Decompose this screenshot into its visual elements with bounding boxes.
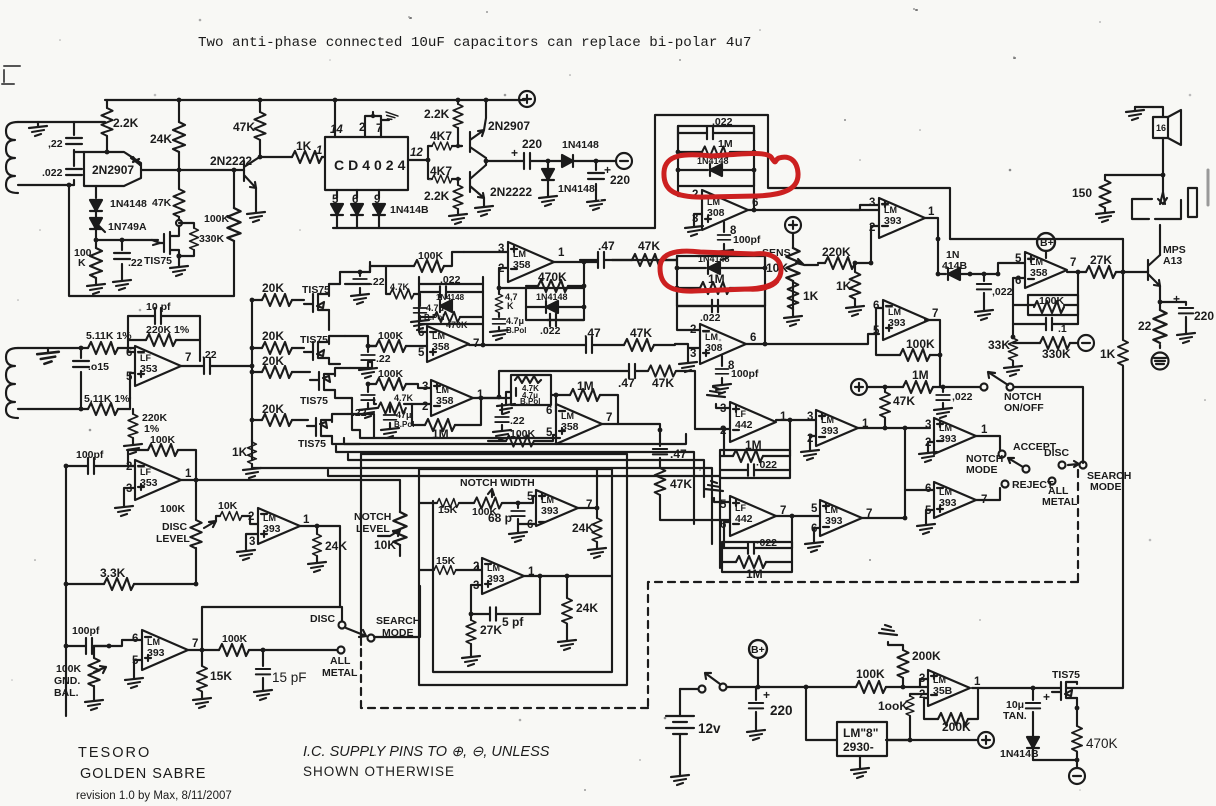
svg-text:DISC: DISC — [310, 613, 336, 625]
svg-text:2930-: 2930- — [843, 740, 874, 754]
resistor 15K — [193, 650, 232, 708]
resistor 5.11K 1% bottom — [83, 393, 130, 415]
svg-text:1K: 1K — [836, 279, 852, 293]
diode 1N4148 — [90, 198, 147, 211]
pin 14 — [330, 98, 343, 137]
feedback 470K — [526, 270, 586, 292]
op-amp U23 LM358 — [919, 670, 981, 706]
capacitor .22 — [113, 238, 143, 290]
FET T1 TIS75 — [302, 284, 340, 330]
potentiometer 100K notch width — [472, 489, 530, 518]
wire out — [181, 365, 204, 367]
svg-text:LEVEL: LEVEL — [356, 523, 390, 535]
svg-text:200K: 200K — [912, 649, 941, 663]
wire out to node column — [862, 517, 905, 519]
capacitor .022 — [678, 116, 754, 140]
svg-text:1N4148: 1N4148 — [558, 183, 595, 195]
resistor 20K row1 — [250, 281, 304, 306]
svg-text:̅L̅F: ̅L̅F — [137, 467, 151, 477]
svg-text:47K: 47K — [670, 477, 692, 491]
wire pin5 — [425, 345, 427, 347]
svg-text:1N4148: 1N4148 — [110, 198, 147, 210]
svg-text:2N2222: 2N2222 — [210, 154, 252, 168]
wire out to node — [858, 427, 930, 429]
svg-text:METAL: METAL — [1042, 496, 1078, 508]
switch notch on/off — [943, 372, 1083, 463]
resistor 1M — [675, 272, 765, 294]
svg-text:NOTCH: NOTCH — [354, 511, 391, 523]
out + 24K — [572, 469, 606, 558]
capacitor .022 — [42, 160, 82, 185]
svg-text:3.3K: 3.3K — [100, 566, 126, 580]
svg-text:15K: 15K — [438, 504, 458, 516]
resistor 4K7 — [428, 160, 460, 183]
resistor 2.2K — [424, 98, 463, 149]
comparator U14 LM393 accept — [925, 418, 988, 454]
resistor 1M — [903, 368, 943, 393]
svg-text:.22: .22 — [128, 257, 143, 269]
wire group2 left down — [677, 288, 700, 330]
svg-text:1: 1 — [981, 424, 988, 436]
wire out to disc switch — [317, 526, 340, 607]
resistor 100K feedback — [876, 308, 942, 361]
ground pin2 — [801, 436, 819, 460]
resistor 5.11K 1% top — [83, 330, 135, 354]
resistor 47K row B — [624, 326, 675, 351]
cap .022 + gnd — [934, 385, 973, 418]
wire out to box edge — [567, 575, 612, 577]
outer spiral wire box — [361, 454, 627, 685]
svg-text:1: 1 — [928, 206, 935, 218]
ground — [29, 122, 47, 136]
svg-text:100K: 100K — [222, 633, 248, 645]
resistor 100K boxed — [1013, 295, 1078, 315]
FET T3 TIS75 — [300, 368, 352, 407]
svg-text:,22: ,22 — [48, 138, 63, 150]
svg-text:10 pf: 10 pf — [146, 301, 171, 313]
pin 1 in + resistor 1K — [260, 139, 325, 163]
svg-text:100K: 100K — [906, 337, 935, 351]
wire search right — [374, 586, 420, 637]
resistor 100K pin2 — [878, 694, 928, 742]
svg-text:TAN.: TAN. — [1003, 710, 1027, 722]
wire to plus terminal — [910, 732, 994, 748]
svg-text:TIS75: TIS75 — [298, 438, 326, 450]
svg-text:.47: .47 — [670, 447, 687, 461]
resistor 220K 1% vertical — [124, 398, 168, 454]
resistor 15K — [419, 499, 474, 516]
svg-text:K: K — [507, 301, 514, 311]
svg-text:4.7K: 4.7K — [390, 282, 410, 292]
comparator U19 LM393 — [473, 558, 535, 594]
wire row B out — [483, 344, 586, 346]
resistor 47K row A — [612, 239, 677, 266]
svg-text:5 pf: 5 pf — [502, 615, 524, 629]
terminal plus — [851, 379, 903, 395]
wire speaker top — [1135, 107, 1163, 117]
sample bus nested wires — [340, 272, 374, 438]
wire speaker down — [1105, 138, 1163, 175]
svg-text:1M: 1M — [432, 427, 449, 441]
svg-text:220: 220 — [1194, 309, 1214, 323]
svg-text:5: 5 — [720, 499, 727, 511]
svg-text:3: 3 — [925, 419, 931, 431]
svg-text:100K: 100K — [510, 428, 536, 440]
comparator U18 LM393 — [527, 490, 592, 531]
pot 100K gnd bal — [54, 644, 111, 710]
svg-text:16: 16 — [1156, 123, 1166, 133]
svg-text:ALL: ALL — [330, 655, 351, 667]
svg-text:1K: 1K — [803, 289, 819, 303]
svg-text:A13: A13 — [1163, 255, 1182, 267]
svg-text:,022: ,022 — [992, 286, 1013, 298]
capacitor 220 — [747, 687, 793, 740]
svg-text:1: 1 — [974, 676, 981, 688]
svg-text:6: 6 — [546, 405, 552, 417]
svg-text:TIS75: TIS75 — [300, 395, 328, 407]
svg-text:+: + — [604, 163, 611, 177]
svg-text:47K: 47K — [233, 120, 255, 134]
FET T5 TIS75 — [1052, 669, 1080, 708]
op-amp U7 LF353 — [126, 346, 191, 386]
svg-text:27K: 27K — [1090, 253, 1112, 267]
svg-text:BAL.: BAL. — [54, 687, 79, 699]
svg-text:1N4148: 1N4148 — [436, 293, 465, 302]
svg-text:MODE: MODE — [1090, 481, 1122, 493]
svg-text:2.2K: 2.2K — [424, 107, 450, 121]
resistor 20K row4 — [250, 402, 308, 426]
battery 12v — [666, 689, 721, 785]
wire pin2 — [678, 186, 702, 196]
svg-text:1: 1 — [558, 247, 565, 259]
svg-text:SHOWN OTHERWISE: SHOWN OTHERWISE — [303, 764, 455, 779]
red loop 1 — [664, 153, 798, 197]
svg-text:24K: 24K — [572, 521, 594, 535]
resistor 1K lower — [1080, 340, 1128, 688]
capacitor .22 — [202, 349, 252, 374]
wire row to 100K — [345, 284, 376, 346]
dashed wire — [361, 470, 1078, 708]
svg-text:+: + — [763, 688, 770, 702]
wire collector down — [95, 186, 97, 198]
svg-text:6: 6 — [750, 332, 756, 344]
svg-text:68 p: 68 p — [488, 511, 512, 525]
svg-text:220: 220 — [610, 173, 630, 187]
box 4.7K/4.7u — [497, 375, 552, 414]
resistor 200K up to gnd — [879, 625, 941, 687]
cap .47 row A — [580, 239, 615, 268]
terminal minus — [596, 153, 632, 169]
resistor 1M to pin6 — [552, 379, 618, 424]
svg-text:20K: 20K — [262, 281, 284, 295]
resistor 4.7K + cap 4.7u row1 — [386, 266, 444, 330]
svg-text:B+: B+ — [1040, 237, 1054, 249]
svg-text:220K: 220K — [822, 245, 851, 259]
resistor 33K — [988, 335, 1022, 376]
svg-text:6: 6 — [527, 519, 533, 531]
notch level pot — [354, 502, 407, 556]
wire out up — [753, 170, 755, 186]
svg-text:SEARCH: SEARCH — [376, 615, 420, 627]
svg-text:393: 393 — [821, 425, 839, 437]
svg-text:1K: 1K — [232, 445, 248, 459]
coil L2 (RX) — [6, 348, 18, 418]
capacitor 10pf feedback — [128, 301, 200, 352]
pin 12 out — [408, 147, 430, 162]
svg-text:100K: 100K — [1039, 295, 1065, 307]
svg-text:100K: 100K — [56, 663, 82, 675]
svg-text:220K 1%: 220K 1% — [146, 324, 190, 336]
wire left rail — [65, 466, 67, 716]
wire out loop — [1077, 272, 1079, 324]
resistor 100K row1 — [370, 250, 464, 272]
vertical .47 cap + 47K chain — [653, 428, 730, 520]
svg-text:308: 308 — [707, 207, 725, 219]
svg-text:1: 1 — [780, 411, 787, 423]
resistor 15K lower — [419, 555, 478, 574]
out + 24K — [300, 524, 347, 572]
resistor 100K row2 — [366, 330, 425, 352]
transistor Q6 MPS A13 — [1148, 225, 1186, 300]
diode 1N4148 to right column — [936, 249, 973, 280]
svg-text:4K7: 4K7 — [430, 164, 452, 178]
resistor 330K — [179, 223, 225, 256]
wire pin6 loop — [1013, 278, 1025, 337]
svg-text:TIS75: TIS75 — [300, 334, 328, 346]
resistor 47K vertical — [880, 385, 915, 428]
svg-text:100K: 100K — [378, 368, 404, 380]
diode 1N4148 — [1000, 737, 1039, 760]
resistor 100K pin5 — [488, 428, 556, 447]
svg-text:330K: 330K — [1042, 347, 1071, 361]
svg-text:̅L̅M: ̅L̅M — [558, 411, 574, 421]
resistor 1M — [676, 138, 757, 158]
svg-text:DISC: DISC — [1044, 447, 1070, 459]
FET T4 TIS75 — [298, 414, 360, 450]
svg-text:10K: 10K — [218, 500, 238, 512]
capacitor 100pf — [64, 449, 135, 474]
nested bus lines bottom — [352, 398, 560, 438]
wire pin3 — [920, 679, 928, 687]
wire out row — [473, 397, 499, 399]
svg-text:.22: .22 — [376, 353, 391, 365]
wire out U5 — [925, 320, 940, 387]
switch contacts accept/reject — [966, 441, 1131, 508]
resistor 200K feedback — [924, 688, 978, 734]
svg-text:I.C. SUPPLY PINS TO ⊕, ⊖, UNLE: I.C. SUPPLY PINS TO ⊕, ⊖, UNLESS — [303, 744, 550, 760]
resistor 100K row3 — [368, 362, 431, 390]
svg-text:7: 7 — [932, 308, 938, 320]
svg-text:12: 12 — [410, 147, 423, 159]
wire to all metal — [263, 649, 337, 651]
svg-text:24K: 24K — [325, 539, 347, 553]
op-amp U11 LM358 — [546, 404, 612, 444]
wire row A in — [604, 256, 677, 268]
svg-text:GOLDEN SABRE: GOLDEN SABRE — [80, 766, 206, 782]
ground pin3 — [685, 214, 703, 236]
diode 1N4148 — [676, 156, 757, 176]
wire pin2 stub — [928, 442, 934, 452]
cap .22 below — [493, 404, 525, 440]
wire out accept — [976, 436, 1000, 450]
wire out reject — [976, 488, 1000, 500]
op-amp U6 LM358 — [1015, 252, 1076, 288]
feedback box diode 1N4148 + cap .022 — [526, 288, 586, 337]
svg-text:LEVEL: LEVEL — [156, 533, 190, 545]
svg-text:47μ: 47μ — [396, 410, 412, 420]
wire left vertical — [360, 454, 362, 645]
wire rail to right column — [950, 238, 1123, 240]
svg-text:.022: .022 — [540, 325, 561, 337]
wire out to comparator — [748, 186, 879, 210]
wire pin5 from diode — [970, 263, 1025, 274]
resistor 24K — [558, 574, 598, 650]
wire out U3 — [746, 256, 765, 344]
svg-text:1: 1 — [303, 514, 310, 526]
svg-text:414B: 414B — [942, 260, 968, 272]
wire node to base — [74, 151, 84, 153]
svg-text:.022: .022 — [712, 116, 733, 128]
wire pin3 — [464, 251, 508, 253]
transistor Q3 TIS75 — [144, 226, 182, 267]
svg-text:1: 1 — [316, 145, 322, 157]
svg-text:15K: 15K — [436, 555, 456, 567]
svg-text:1N4148: 1N4148 — [698, 254, 730, 264]
capacitor .1 — [1013, 318, 1078, 335]
svg-text:3: 3 — [249, 536, 255, 548]
svg-text:̅L̅F: ̅L̅F — [137, 353, 151, 363]
svg-text:revision 1.0 by Max, 8/11/2007: revision 1.0 by Max, 8/11/2007 — [76, 790, 232, 802]
feedback 100K — [128, 434, 196, 478]
op-amp U10 LM358 — [422, 380, 484, 416]
resistor 100K — [219, 633, 263, 656]
wire out row A — [554, 262, 598, 288]
capacitor 15pF — [254, 648, 307, 700]
cap .47 + 47K row C — [481, 364, 695, 429]
svg-text:3: 3 — [869, 197, 875, 209]
resistor 2.2K lower — [424, 177, 467, 224]
svg-text:.1: .1 — [1058, 323, 1067, 335]
svg-text:.22: .22 — [370, 276, 385, 288]
comparator U15 LM393 reject — [925, 482, 987, 518]
svg-text:7: 7 — [1070, 257, 1076, 269]
svg-text:7: 7 — [376, 123, 382, 135]
op-amp U12 LF442 — [720, 402, 787, 442]
wire down to regulator — [806, 687, 837, 740]
svg-text:+: + — [511, 146, 518, 160]
wire out down to rail — [925, 218, 938, 274]
svg-text:1K: 1K — [1100, 347, 1116, 361]
transistor Q4 2N2907 — [470, 98, 530, 158]
svg-text:B.Pol: B.Pol — [520, 397, 540, 406]
capacitor 220 polarized — [587, 159, 630, 210]
svg-text:20K: 20K — [262, 354, 284, 368]
transistor Q5 2N2222 — [470, 165, 532, 199]
ground 2N2222 emitter — [247, 188, 265, 222]
svg-text:·022: ·022 — [756, 537, 777, 549]
capacitor .015 — [73, 346, 109, 412]
wire top rail — [105, 99, 525, 101]
wire sample bus vertical — [251, 300, 253, 460]
svg-text:1K: 1K — [296, 139, 312, 153]
pot 100K disc level — [156, 480, 202, 584]
capacitor .022 — [975, 272, 1013, 320]
resistor 3.3K — [64, 566, 199, 590]
wire pin2 — [478, 566, 482, 570]
capacitor 100pf pin8 — [715, 222, 761, 260]
wire bottom rail — [333, 227, 655, 229]
svg-text:2: 2 — [248, 511, 254, 523]
svg-text:METAL: METAL — [322, 667, 358, 679]
capacitor 220 emitter — [1160, 292, 1214, 343]
svg-text:̅L̅F: ̅L̅F — [732, 503, 746, 513]
wire — [18, 122, 105, 185]
svg-text:33K: 33K — [988, 338, 1010, 352]
svg-text:393: 393 — [939, 433, 957, 445]
wire rail down — [1122, 239, 1124, 340]
svg-text:100pf: 100pf — [76, 449, 104, 461]
svg-text:7: 7 — [586, 499, 592, 511]
wire out U3 to comparator 2 — [765, 334, 879, 344]
red loop 2 — [660, 251, 781, 291]
resistor 20K row2 — [250, 329, 304, 354]
svg-text:20K: 20K — [262, 329, 284, 343]
diode 1N4148 shunt — [539, 159, 595, 206]
wire pin3 row B — [675, 344, 700, 348]
svg-text:2.2K: 2.2K — [113, 116, 139, 130]
feedback box .022 / 1N4148 / 470K — [419, 274, 483, 330]
svg-text:47K: 47K — [652, 376, 674, 390]
capacitor 68p — [488, 501, 533, 542]
svg-text:LM"8": LM"8" — [843, 726, 878, 740]
pins 2,7 — [359, 111, 398, 137]
wires — [18, 348, 83, 409]
diode 1N4148 series — [548, 139, 599, 167]
svg-text:·022: ·022 — [756, 459, 777, 471]
svg-text:220: 220 — [522, 137, 542, 151]
ground stub — [37, 348, 59, 364]
svg-text:.47: .47 — [598, 239, 615, 253]
op-amp U16 LF442 — [720, 496, 786, 536]
comparator U5 LM393 — [873, 300, 938, 340]
capacitor .22 — [48, 122, 82, 160]
wire pin5 — [530, 496, 536, 524]
svg-text:GND.: GND. — [54, 675, 80, 687]
svg-text:.22: .22 — [510, 415, 525, 427]
svg-text:1: 1 — [185, 468, 192, 480]
svg-text:24K: 24K — [150, 132, 172, 146]
svg-text:5: 5 — [811, 503, 818, 515]
resistor 47K — [152, 189, 185, 226]
svg-text:TIS75: TIS75 — [302, 284, 330, 296]
svg-text:1ooK: 1ooK — [878, 699, 908, 713]
svg-text:5.11K 1%: 5.11K 1% — [86, 330, 132, 342]
svg-text:DISC: DISC — [162, 521, 188, 533]
svg-text:470K: 470K — [446, 320, 468, 330]
capacitor 100pf — [64, 625, 109, 654]
svg-text:TIS75: TIS75 — [144, 255, 172, 267]
svg-text:358: 358 — [1030, 267, 1048, 279]
op-amp U20 LF353 — [126, 460, 192, 500]
op-amp U2 LM308 — [692, 189, 758, 237]
svg-text:6: 6 — [132, 633, 138, 645]
svg-text:100pf: 100pf — [733, 234, 761, 246]
svg-text:27K: 27K — [480, 623, 502, 637]
svg-text:20K: 20K — [262, 402, 284, 416]
svg-text:3: 3 — [422, 381, 428, 393]
svg-text:2: 2 — [422, 401, 428, 413]
terminal B+ — [1037, 233, 1055, 258]
